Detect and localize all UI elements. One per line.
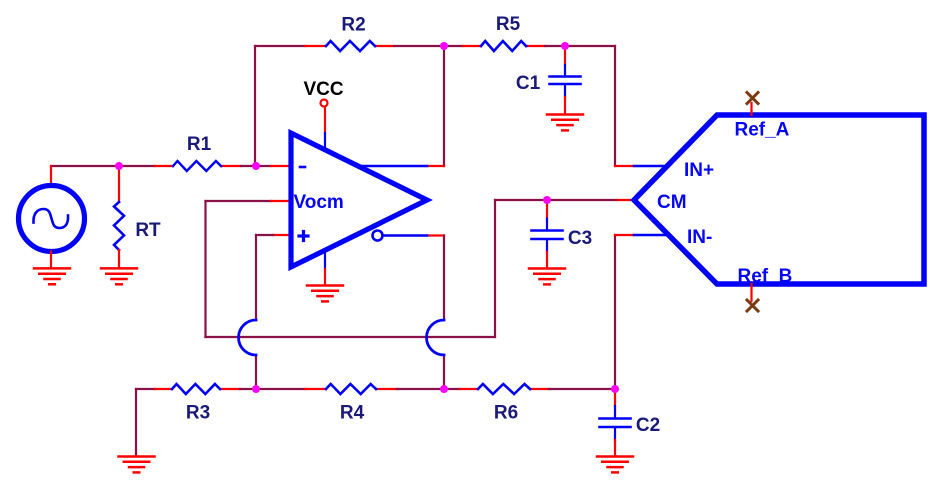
junction node A bbox=[440, 42, 448, 50]
label R4 bbox=[340, 403, 365, 424]
label RT bbox=[135, 220, 161, 241]
label R1 bbox=[187, 134, 212, 155]
junction CM C3 node bbox=[543, 196, 551, 204]
wire RT node to R1 bbox=[119, 165, 173, 167]
svg-text:IN+: IN+ bbox=[684, 160, 714, 181]
ground under source bbox=[34, 268, 70, 284]
ground under op-amp bbox=[307, 286, 343, 302]
resistor R2 bbox=[326, 41, 375, 51]
resistor R1 bbox=[173, 161, 221, 171]
capacitor C1 bbox=[550, 46, 581, 114]
junction node B bbox=[561, 42, 569, 50]
svg-text:C1: C1 bbox=[516, 73, 541, 94]
pin Ref_A stub bbox=[750, 103, 752, 115]
label C3 bbox=[568, 228, 592, 249]
svg-text:RT: RT bbox=[135, 220, 161, 241]
ground under C3 bbox=[529, 269, 565, 285]
ground under RT bbox=[101, 268, 137, 284]
label R3 bbox=[186, 403, 210, 424]
Ref_A no-connect X bbox=[747, 93, 758, 104]
svg-text:Ref_B: Ref_B bbox=[738, 266, 793, 287]
svg-text:R1: R1 bbox=[187, 134, 212, 155]
capacitor C3 bbox=[532, 200, 563, 268]
label IN- bbox=[687, 227, 712, 248]
wire top rail to R2 bbox=[255, 45, 326, 47]
op-amp plus sign bbox=[299, 232, 308, 241]
wire CM horizontal to ADC bbox=[495, 199, 634, 201]
label Vocm bbox=[294, 192, 344, 213]
wire node A down to op-amp output+ bbox=[427, 46, 444, 166]
label R2 bbox=[341, 15, 365, 36]
junction inverting input node bbox=[252, 162, 260, 170]
label C2 bbox=[636, 415, 660, 436]
junction R6 C2 node bbox=[611, 385, 619, 393]
voltage source VG1 bbox=[19, 166, 85, 268]
wire Vocm net vertical right bbox=[494, 200, 496, 337]
Ref_B no-connect X bbox=[747, 300, 758, 311]
junction R1 RT node bbox=[115, 162, 123, 170]
wire hop at right crossover bbox=[427, 320, 445, 355]
svg-text:Ref_A: Ref_A bbox=[735, 120, 790, 141]
wire R5 to node B bbox=[526, 45, 565, 47]
svg-text:Vocm: Vocm bbox=[294, 192, 344, 213]
wire node A to R5 bbox=[444, 45, 481, 47]
ground under R3 leg bbox=[119, 457, 155, 473]
label Ref_A bbox=[735, 120, 790, 141]
resistor R3 bbox=[172, 384, 220, 394]
svg-text:R4: R4 bbox=[340, 403, 365, 424]
wire R1 to inverting input node bbox=[221, 165, 290, 167]
wire op-amp output- down to R4 R6 node bbox=[427, 236, 444, 390]
VCC supply terminal bbox=[321, 100, 328, 159]
label CM bbox=[657, 192, 687, 213]
svg-text:VCC: VCC bbox=[303, 79, 343, 100]
wire Vocm net vertical left bbox=[204, 201, 206, 337]
resistor RT bbox=[114, 166, 124, 267]
svg-text:CM: CM bbox=[657, 192, 687, 213]
wire R3 to bottom node bbox=[220, 388, 326, 390]
svg-text:R6: R6 bbox=[494, 403, 518, 424]
label R5 bbox=[496, 14, 521, 35]
wire R4 to node C bbox=[376, 388, 478, 390]
ground under C2 bbox=[597, 457, 633, 473]
svg-text:C3: C3 bbox=[568, 228, 592, 249]
svg-text:IN-: IN- bbox=[687, 227, 712, 248]
svg-text:R5: R5 bbox=[496, 14, 521, 35]
op-amp minus sign bbox=[300, 166, 305, 169]
op-amp U1 bbox=[291, 133, 427, 269]
pin Ref_B stub bbox=[750, 284, 752, 301]
wire R6 to C2 node bbox=[530, 388, 615, 390]
capacitor C2 bbox=[600, 389, 631, 456]
wire node B to IN+ bbox=[565, 46, 634, 166]
label IN+ bbox=[684, 160, 714, 181]
wire R3 ground leg bbox=[136, 389, 172, 456]
label R6 bbox=[494, 403, 518, 424]
wire source top to RT node bbox=[51, 165, 119, 167]
op-amp ground pin wire bbox=[324, 269, 326, 285]
wire R2 to node A bbox=[375, 45, 444, 47]
ground under C1 bbox=[547, 115, 583, 131]
label Ref_B bbox=[738, 266, 793, 287]
wire hop at left crossover bbox=[239, 320, 257, 355]
junction R4 R6 node bbox=[440, 385, 448, 393]
wire Vocm to CM net: left horizontal bbox=[206, 200, 291, 202]
junction R3 R4 node bbox=[252, 385, 260, 393]
label C1 bbox=[516, 73, 541, 94]
svg-text:C2: C2 bbox=[636, 415, 660, 436]
resistor R5 bbox=[481, 41, 526, 51]
ADC U2 pentagon bbox=[634, 115, 924, 284]
resistor R6 bbox=[478, 384, 530, 394]
wire C2 node up to IN- bbox=[615, 235, 634, 389]
label VCC bbox=[303, 79, 343, 100]
svg-text:R2: R2 bbox=[341, 15, 365, 36]
wire noninverting input to bottom node bbox=[256, 235, 290, 389]
resistor R4 bbox=[326, 384, 376, 394]
svg-text:R3: R3 bbox=[186, 403, 210, 424]
wire feedback vertical left bbox=[254, 46, 256, 166]
wire Vocm net bottom horizontal bbox=[206, 336, 496, 338]
